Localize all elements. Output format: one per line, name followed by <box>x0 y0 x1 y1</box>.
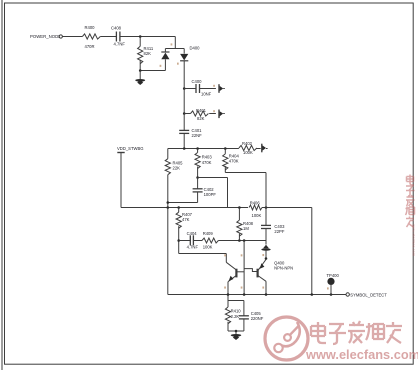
off-page connector (R401 output) <box>219 110 225 119</box>
wire detect bus <box>168 294 346 296</box>
off-page connector (R402 output) <box>262 144 268 153</box>
wire <box>184 88 196 90</box>
svg-text:www.elecfans.com: www.elecfans.com <box>411 223 415 256</box>
wire from mid bus down the left side <box>167 208 169 295</box>
capacitor C401 <box>179 128 202 149</box>
wire <box>140 70 165 72</box>
svg-text:470K: 470K <box>202 160 212 165</box>
capacitor C400 <box>192 79 212 96</box>
wire <box>183 89 185 114</box>
svg-text:TP400: TP400 <box>327 273 340 278</box>
svg-text:C400: C400 <box>192 79 203 84</box>
junction <box>139 35 142 38</box>
junction <box>177 206 180 209</box>
svg-text:470K: 470K <box>229 159 239 164</box>
svg-text:C404: C404 <box>187 231 198 236</box>
wire <box>165 37 184 54</box>
svg-text:C408: C408 <box>111 26 122 31</box>
svg-text:22K: 22K <box>173 166 181 171</box>
svg-text:10NF: 10NF <box>201 91 212 96</box>
resistor R401 <box>184 108 216 121</box>
wire from R404 to C403 column <box>225 172 266 174</box>
wire <box>62 36 82 38</box>
junction <box>238 206 241 209</box>
svg-text:100K: 100K <box>203 245 213 250</box>
junction <box>330 293 333 296</box>
resistor R406 <box>249 201 262 218</box>
transistor Q400 right <box>244 260 293 295</box>
junction <box>167 206 170 209</box>
wire base column <box>243 241 245 295</box>
wire R403 branch <box>196 176 227 207</box>
wire <box>100 36 116 38</box>
svg-text:R403: R403 <box>202 154 213 159</box>
junction node at C400 branch <box>183 87 186 90</box>
power flag <box>261 245 270 259</box>
svg-text:www.elecfans.com: www.elecfans.com <box>305 347 418 362</box>
junction <box>167 201 170 204</box>
svg-text:R400: R400 <box>85 25 96 30</box>
wire <box>120 36 175 38</box>
resistor R404 <box>223 149 240 173</box>
wire <box>183 114 185 131</box>
resistor R409 <box>193 231 266 250</box>
capacitor C404 <box>187 231 199 250</box>
capacitor C403 <box>261 173 285 245</box>
svg-text:22PF: 22PF <box>274 229 284 234</box>
svg-text:100PF: 100PF <box>204 192 217 197</box>
svg-text:VDD_STWBG: VDD_STWBG <box>117 146 144 151</box>
wire C402 to R405 column <box>168 202 198 204</box>
svg-text:2.2K: 2.2K <box>231 314 240 319</box>
junction <box>265 257 268 260</box>
junction <box>183 147 186 150</box>
watermark chinese text <box>312 322 403 345</box>
node VDD_STWBG <box>117 146 144 208</box>
svg-text:100K: 100K <box>243 150 253 155</box>
wire mid bus <box>121 207 248 209</box>
junction <box>238 239 241 242</box>
wire C404 row <box>179 240 191 242</box>
resistor R408 <box>237 208 254 241</box>
svg-text:220NF: 220NF <box>251 316 264 321</box>
ground <box>135 71 145 86</box>
wire down to detect bus <box>311 208 313 295</box>
capacitor C402 <box>193 178 217 203</box>
junction <box>224 147 227 150</box>
junction <box>227 293 230 296</box>
watermark logo <box>265 317 308 360</box>
junction <box>265 206 268 209</box>
svg-text:1M: 1M <box>243 226 249 231</box>
svg-text:R409: R409 <box>203 231 214 236</box>
svg-text:POWER_NODE: POWER_NODE <box>30 34 61 39</box>
junction <box>243 239 246 242</box>
diode D400 right half <box>180 46 200 89</box>
resistor R400 <box>82 25 100 49</box>
svg-text:47K: 47K <box>182 217 190 222</box>
resistor R405 <box>165 149 183 208</box>
resistor R411 <box>138 37 154 71</box>
svg-text:22NF: 22NF <box>192 133 203 138</box>
svg-text:470R: 470R <box>85 44 95 49</box>
svg-text:R406: R406 <box>250 201 261 206</box>
resistor R407 <box>176 208 193 254</box>
svg-text:NPN-NPN: NPN-NPN <box>274 266 293 271</box>
diode D400 left half <box>161 52 169 71</box>
junction <box>177 239 180 242</box>
off-page connector (C400 output) <box>219 84 225 93</box>
wire R407 branch to collector <box>179 253 227 255</box>
svg-text:4.7NF: 4.7NF <box>114 42 126 47</box>
capacitor C408 <box>111 26 125 47</box>
transistor Q400 left <box>226 254 244 301</box>
test point TP400 <box>327 273 340 295</box>
junction <box>243 293 246 296</box>
node SYMBOL_DETECT <box>346 293 387 298</box>
wire <box>200 88 216 90</box>
pin number marks <box>160 43 329 289</box>
junction <box>139 69 142 72</box>
node POWER_NODE <box>30 34 62 39</box>
svg-text:R401: R401 <box>196 108 207 113</box>
resistor R403 <box>195 149 212 178</box>
svg-text:R402: R402 <box>242 141 253 146</box>
svg-text:D400: D400 <box>190 46 201 51</box>
junction <box>265 293 268 296</box>
junction <box>196 147 199 150</box>
wire mid bus right <box>262 207 312 209</box>
junction <box>311 293 314 296</box>
wire top bus <box>168 148 239 150</box>
svg-text:100K: 100K <box>252 213 262 218</box>
junction node at R401 branch <box>183 112 186 115</box>
ground <box>231 330 242 340</box>
svg-text:SYMBOL_DETECT: SYMBOL_DETECT <box>350 293 387 298</box>
svg-text:R410: R410 <box>231 309 242 314</box>
svg-text:82K: 82K <box>197 116 205 121</box>
resistor R410 and capacitor C405 loop <box>225 301 263 332</box>
svg-text:82K: 82K <box>144 51 152 56</box>
svg-text:4.7NF: 4.7NF <box>187 245 199 250</box>
watermark right column <box>406 175 415 228</box>
resistor R402 <box>239 141 261 155</box>
